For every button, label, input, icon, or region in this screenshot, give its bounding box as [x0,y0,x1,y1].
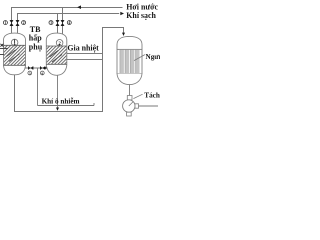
svg-text:Ngưng: Ngưng [146,53,161,61]
svg-text:Khí ô nhiễm: Khí ô nhiễm [42,97,80,106]
svg-text:Hơi nước: Hơi nước [126,3,158,12]
separator circle [123,100,135,112]
label circled 3 [49,21,53,25]
arrow into V2 [45,67,48,70]
wire vessel2 steam pipe [62,8,64,35]
vessel V2 adsorber outline [46,33,67,75]
condenser tube body [117,49,142,73]
arrow steam flow left [77,5,81,9]
label circled 6 [40,71,44,75]
label circled 4 [67,21,71,25]
wire feed line [38,103,95,106]
svg-text:Khí sạch: Khí sạch [126,11,156,20]
arrow clean gas right [120,12,124,15]
valve 6 [40,66,45,69]
wire regen loop [15,28,124,112]
nozzle circle 2 [56,40,63,47]
svg-text:4: 4 [68,21,70,25]
valve 2 [16,20,19,26]
arrow onto bottom line [56,108,59,111]
svg-text:2: 2 [23,21,25,25]
nozzle circle 1 [11,39,18,46]
wire steam header [12,8,123,21]
svg-text:1: 1 [5,21,7,25]
condenser outline [117,36,142,49]
svg-text:3: 3 [50,21,52,25]
bed V2 hatch [47,46,67,64]
condenser bottom bowl [117,74,142,85]
vessel V1 adsorber outline [4,33,26,75]
arrow into condenser [122,33,125,36]
svg-text:hấp: hấp [29,34,42,43]
separator stub top [127,96,132,100]
wire clean gas header [18,14,120,21]
clipped label left edge [0,44,3,47]
svg-text:5: 5 [29,71,31,75]
svg-text:Gia nhiệt: Gia nhiệt [67,44,99,53]
label circled 2 [22,21,26,25]
wire V2 bottom pipe [57,75,59,108]
wire bottom valve line [25,67,45,69]
leader Ngung [134,55,145,61]
separator stub right [135,104,139,108]
leader Tach [133,94,142,98]
heater stub lines V1 [0,49,8,55]
wire vessel1 steam pipe [11,8,13,35]
valve 5 [28,66,33,69]
wire feed riser [37,68,39,106]
label circled 5 [28,71,32,75]
svg-text:phụ: phụ [29,43,43,52]
svg-text:Tách: Tách [144,91,160,99]
bed V1 hatch [4,45,25,65]
coil V1 [7,50,20,62]
svg-text:6: 6 [41,71,43,75]
wire separator outlet [139,105,159,107]
valve 3 [56,20,59,26]
wire vessel1 clean pipe [17,14,19,35]
wire vessel2 clean pipe [57,14,59,35]
separator diagonal [129,102,133,106]
valve 4 [61,20,64,26]
separator stub bottom [127,112,132,116]
coil V2 [50,51,63,63]
label circled 1 [3,21,7,25]
valve 1 [10,20,13,26]
wire condenser to separator [129,85,131,96]
heater lines V2 to riser [67,54,102,60]
